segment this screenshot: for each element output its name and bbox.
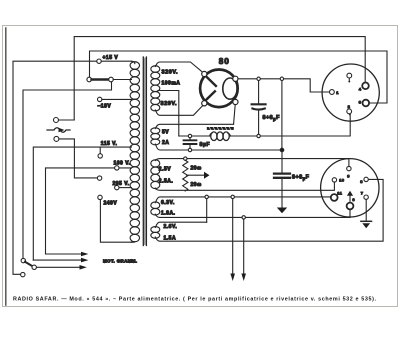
capacitor 8+8uF first plates bbox=[252, 104, 266, 109]
transformer 5V winding bbox=[151, 128, 160, 145]
tube pin top-right bbox=[233, 76, 238, 81]
svg-text:3: 3 bbox=[359, 99, 362, 104]
wire switch upper bbox=[59, 119, 75, 121]
svg-text:5V: 5V bbox=[162, 129, 169, 135]
svg-text:4: 4 bbox=[359, 86, 362, 91]
bottom connector pin 8 bbox=[364, 177, 368, 181]
svg-text:100mA: 100mA bbox=[162, 81, 181, 87]
transformer 6.3V winding bbox=[151, 202, 160, 215]
capacitor 8+8uF second stub to ground bbox=[281, 179, 283, 208]
transformer core bbox=[143, 57, 146, 246]
bottom connector pin 10 bbox=[332, 178, 336, 182]
bottom connector pin 9 bbox=[347, 166, 351, 170]
potentiometer wiper arrow bbox=[187, 174, 205, 176]
wire 2.6V top rail bbox=[156, 222, 207, 226]
terminal 205V bbox=[115, 185, 119, 189]
svg-text:20ω: 20ω bbox=[191, 182, 203, 188]
svg-text:1.8A.: 1.8A. bbox=[161, 210, 176, 216]
tube 80 envelope bbox=[200, 70, 238, 108]
tube filament loop bbox=[223, 78, 237, 99]
terminal 240V bbox=[98, 195, 102, 199]
svg-text:240V: 240V bbox=[104, 201, 118, 207]
wire HT centre tap bbox=[158, 91, 179, 137]
tube pin bottom-right bbox=[233, 99, 238, 104]
choke core bar bbox=[207, 127, 234, 130]
wire 2.5V top rail to pin9 bbox=[156, 159, 349, 167]
wire pin2 drop bbox=[348, 114, 350, 115]
wire 205V tap bbox=[119, 187, 132, 189]
wire 5V bottom rail bbox=[156, 145, 280, 150]
capacitor 8uF stub bbox=[189, 138, 191, 149]
svg-text:10: 10 bbox=[339, 179, 344, 183]
junction 6.3V rail a bbox=[205, 195, 208, 198]
ground under pin7 bbox=[361, 220, 372, 222]
svg-text:2.5A.: 2.5A. bbox=[159, 179, 174, 185]
top connector pin 4 bbox=[362, 83, 369, 90]
voltage link bar bbox=[92, 78, 109, 80]
terminal -18V bbox=[98, 97, 102, 101]
svg-text:9: 9 bbox=[347, 173, 350, 178]
capacitor 8+8uF second plates bbox=[274, 174, 290, 178]
wire +15V tap bbox=[13, 61, 132, 274]
wire pin6 drop bbox=[349, 210, 351, 218]
potentiometer 20+20 zigzag bbox=[183, 160, 188, 191]
switch blade bbox=[47, 128, 70, 133]
wire 115V tap bbox=[33, 147, 131, 260]
junction 6.3V bottom rail bbox=[242, 216, 245, 219]
wire pin7 to ground bbox=[365, 199, 367, 221]
wire 2.5V bottom rail to pin10 bbox=[156, 182, 335, 190]
svg-text:6.3V.: 6.3V. bbox=[161, 200, 175, 206]
svg-text:2: 2 bbox=[348, 104, 351, 109]
wire 160V tap bbox=[46, 168, 132, 254]
junction 6.3V rail b bbox=[231, 195, 234, 198]
transformer HT secondary winding bbox=[151, 66, 160, 111]
arrow mot gramm 1 bbox=[46, 253, 82, 255]
top connector pin 1 bbox=[330, 90, 335, 95]
svg-text:RADIO SAFAR. — Mod. « 544 ». –: RADIO SAFAR. — Mod. « 544 ». – Parte ali… bbox=[13, 297, 377, 303]
wire filament pin to 5V box bbox=[234, 105, 236, 124]
junction filament rail at 8uF bbox=[188, 134, 191, 137]
mains plug lower pin bbox=[21, 272, 25, 276]
transformer 2.6V winding bbox=[151, 227, 160, 239]
wire HT bottom to anode bbox=[156, 105, 203, 115]
junction 8uF bottom bbox=[188, 148, 191, 151]
junction B+ vertical bottom bbox=[280, 148, 284, 152]
svg-text:+15 V: +15 V bbox=[103, 55, 119, 61]
plug mid pin bbox=[32, 265, 36, 269]
svg-text:160 V.: 160 V. bbox=[114, 161, 131, 167]
ground arrow below cap2 bbox=[277, 208, 287, 214]
bottom connector key arrow bbox=[349, 195, 351, 203]
svg-text:80: 80 bbox=[219, 56, 230, 66]
wire B+ branch vertical bbox=[281, 81, 283, 173]
top connector shell bbox=[322, 64, 379, 121]
top connector pin 3 bbox=[363, 100, 370, 107]
voltage link left circle bbox=[87, 77, 92, 82]
arrow mot gramm 2 bbox=[33, 259, 81, 261]
junction filament rail at cap1 bbox=[257, 134, 260, 137]
wire filament rail bbox=[179, 114, 350, 136]
wire second rail (link to pin3) bbox=[90, 51, 388, 103]
svg-text:2.6V.: 2.6V. bbox=[164, 224, 178, 230]
svg-text:20ω: 20ω bbox=[191, 166, 203, 172]
wire tie 6.3V to 2.6V rails bbox=[206, 199, 208, 223]
wire link to transformer bbox=[113, 79, 131, 81]
wire 2.6V bottom rail to pin8 bbox=[156, 179, 383, 241]
svg-text:8µF: 8µF bbox=[200, 142, 211, 148]
mains plug blade bbox=[25, 262, 33, 266]
tube pin top-left bbox=[202, 71, 207, 76]
voltage link right circle bbox=[109, 77, 114, 82]
svg-text:7: 7 bbox=[361, 191, 364, 196]
transformer 2.5V winding bbox=[151, 160, 160, 189]
svg-text:320V.: 320V. bbox=[162, 69, 179, 75]
junction on B+ rail at cap2 branch bbox=[280, 77, 283, 80]
svg-text:2.5V: 2.5V bbox=[159, 167, 171, 173]
bottom connector pin 7 bbox=[364, 195, 368, 199]
terminal +15V bbox=[97, 59, 101, 63]
wire link down to left bus bbox=[23, 82, 112, 259]
wire heater arrow 2 bbox=[243, 219, 245, 274]
choke winding loops bbox=[210, 133, 213, 136]
svg-text:11: 11 bbox=[337, 192, 342, 196]
switch upper contact bbox=[54, 118, 59, 123]
terminal selector 205 bbox=[97, 176, 101, 180]
wire HT top to anode bbox=[156, 62, 203, 72]
terminal 160V bbox=[115, 166, 119, 170]
wire 240V tap bbox=[100, 200, 134, 243]
terminal 115V stub bbox=[99, 147, 101, 154]
junction pot top bbox=[184, 157, 187, 160]
wire switch lower to selector bbox=[59, 139, 98, 178]
wire heater arrow 1 bbox=[232, 199, 234, 274]
svg-text:8+8µF: 8+8µF bbox=[263, 115, 281, 122]
svg-text:205 V.: 205 V. bbox=[113, 181, 130, 187]
mains plug upper pin bbox=[21, 258, 25, 262]
svg-text:6: 6 bbox=[352, 197, 355, 202]
bottom connector pin 6 bbox=[347, 203, 354, 210]
svg-text:8: 8 bbox=[360, 179, 363, 184]
wire 6.3V top rail to pin11 bbox=[156, 197, 331, 202]
wire plug to arrow bbox=[36, 266, 80, 268]
bottom connector pin 11 bbox=[331, 194, 338, 201]
transformer primary winding bbox=[130, 61, 139, 242]
tube pin bottom-left bbox=[202, 101, 207, 106]
svg-text:–18V: –18V bbox=[98, 104, 112, 110]
terminal 115V bbox=[98, 154, 102, 158]
wire top rail (switch to pin4) bbox=[74, 37, 365, 120]
arrow mot gramm 3 arrowhead bbox=[80, 265, 87, 270]
junction on B+ rail at cap1 bbox=[257, 77, 260, 80]
wire 6.3V bottom rail to pin6 bbox=[156, 215, 350, 217]
svg-text:320V.: 320V. bbox=[161, 101, 178, 107]
svg-text:1: 1 bbox=[336, 90, 339, 95]
switch lower contact bbox=[54, 136, 59, 141]
wire -18V tap bbox=[102, 98, 132, 100]
capacitor 8+8uF first stub bbox=[258, 81, 260, 135]
top connector pin 5 key bbox=[347, 73, 352, 78]
tube plate 2 bbox=[205, 91, 215, 101]
tube plate 1 bbox=[206, 77, 216, 86]
top connector pin 2 bbox=[347, 109, 352, 114]
svg-text:115 V.: 115 V. bbox=[101, 141, 118, 147]
capacitor 8uF plates bbox=[184, 140, 197, 144]
svg-text:8+8µF: 8+8µF bbox=[292, 175, 310, 182]
bottom connector shell bbox=[321, 159, 379, 217]
wire 5V top edge bbox=[156, 124, 234, 127]
svg-text:2A: 2A bbox=[162, 140, 169, 146]
wire B+ rail tube to pin1 bbox=[238, 79, 330, 92]
svg-text:MOT. GRAMM.: MOT. GRAMM. bbox=[103, 258, 137, 263]
